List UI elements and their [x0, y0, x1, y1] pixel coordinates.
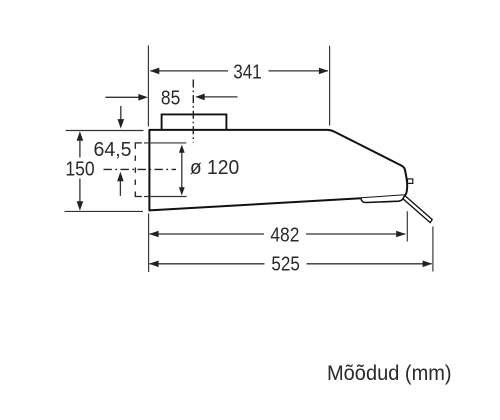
- dimension 341 label: [233, 61, 262, 83]
- dimension 85 right arrow: [195, 94, 237, 101]
- horizontal duct centerline: [104, 168, 177, 170]
- dimension 482 line and arrows: [149, 231, 406, 238]
- dimension 85 left arrow: [105, 94, 147, 101]
- duct collar on hood top: [162, 114, 227, 129]
- dimension 64,5 label: [94, 139, 132, 161]
- bottom lip (pull-out visor edge): [361, 195, 405, 202]
- svg-text:64,5: 64,5: [94, 139, 132, 161]
- hidden recirculation box (dashed): [135, 143, 142, 197]
- dimension ø120 label: [190, 157, 239, 179]
- svg-text:482: 482: [270, 224, 299, 246]
- svg-text:ø 120: ø 120: [190, 157, 239, 179]
- vertical duct centerline: [192, 80, 194, 143]
- dimension 150 line and arrows: [77, 131, 84, 211]
- svg-text:Mõõdud (mm): Mõõdud (mm): [327, 362, 452, 385]
- dimension 482 extension line left: [148, 214, 150, 273]
- dimension ø120 tick top: [144, 142, 186, 144]
- hood body outline: [149, 130, 407, 211]
- svg-text:150: 150: [65, 159, 94, 181]
- dimension 525 extension line right: [432, 227, 434, 272]
- svg-text:341: 341: [233, 61, 262, 83]
- caption Mõõdud (mm): [327, 362, 452, 385]
- handle lever: [403, 196, 432, 223]
- dimension 150 label: [65, 159, 94, 181]
- dimension ø120 line and arrows: [179, 145, 185, 196]
- dimension 150 extension line top: [66, 130, 144, 132]
- dimension 525 label: [271, 253, 300, 275]
- dimension 150 extension line bottom: [65, 210, 144, 212]
- svg-text:525: 525: [271, 253, 300, 275]
- dimension 64,5 lower arrow: [117, 172, 124, 196]
- dimension 482 extension line right: [406, 211, 408, 241]
- dimension 341 line and arrows: [150, 68, 329, 75]
- dimension 85 label: [161, 88, 180, 110]
- dimension 341 extension line left: [147, 45, 149, 126]
- svg-text:85: 85: [161, 88, 180, 110]
- dimension 341 extension line right: [329, 46, 331, 126]
- dimension 525 line and arrows: [149, 261, 432, 268]
- damper tab: [408, 179, 413, 184]
- dimension ø120 tick bottom: [144, 196, 187, 198]
- dimension 482 label: [270, 224, 299, 246]
- dimension 64,5 upper arrow: [118, 106, 125, 129]
